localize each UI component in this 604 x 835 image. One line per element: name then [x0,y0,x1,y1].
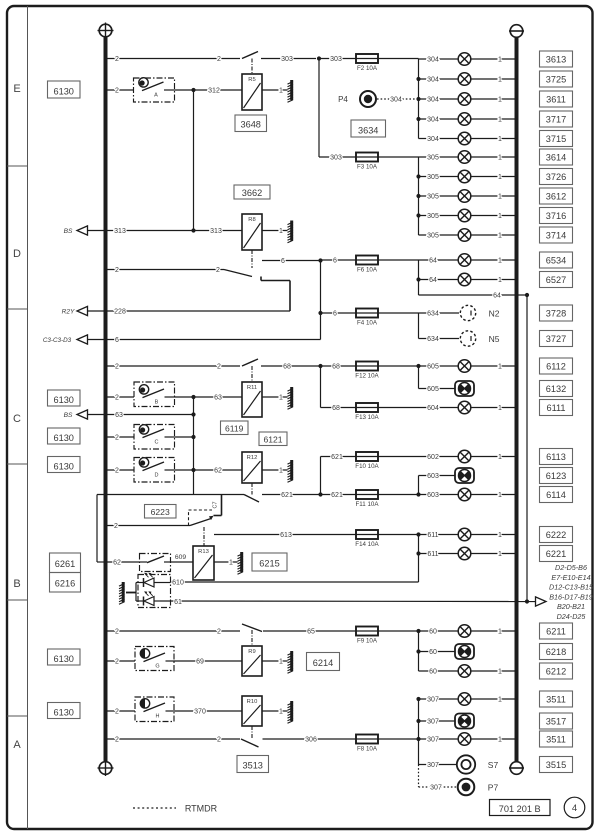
arrow BS left [77,226,88,235]
switch D [134,458,175,483]
component box 3613 [540,51,573,67]
component box 3728 [540,305,573,321]
svg-text:3728: 3728 [546,308,566,318]
svg-text:1: 1 [498,117,502,124]
svg-text:6119: 6119 [225,424,244,434]
component box 6211 [540,623,573,639]
svg-text:1: 1 [498,532,502,539]
wire 305-3 [419,195,515,197]
vertical link switch A output to 313 [193,90,195,231]
relay unit R11 [242,382,262,417]
svg-text:370: 370 [194,709,206,716]
arrow R2Y left [77,306,88,315]
svg-text:1: 1 [498,174,502,181]
wire 610 [171,581,419,583]
svg-text:2: 2 [115,267,119,274]
mechanical link R12-switch [251,483,253,495]
svg-text:1: 1 [498,669,502,676]
svg-text:F14 10A: F14 10A [355,541,379,548]
wire 68 to fuse F13 [321,407,357,409]
svg-text:64: 64 [429,277,437,284]
svg-text:1: 1 [279,395,283,402]
svg-text:S7: S7 [488,760,499,770]
vertical 63/62 link [193,397,195,495]
svg-text:6132: 6132 [546,384,566,394]
svg-text:H: H [156,714,160,720]
svg-text:F4 10A: F4 10A [357,320,378,327]
ground terminal top [509,25,524,38]
svg-text:1: 1 [498,277,502,284]
svg-text:F9 10A: F9 10A [357,638,378,645]
wire 64-2 [419,279,515,281]
connector N5 [460,331,475,346]
wire 64 link to zone B [419,294,528,296]
component box 6261 [50,553,81,573]
fuse F2 10A [356,54,378,72]
svg-text:603: 603 [427,492,439,499]
svg-text:3613: 3613 [546,54,566,64]
svg-text:1: 1 [279,228,283,235]
wire 634 N2 [419,312,460,314]
svg-text:621: 621 [331,454,343,461]
svg-text:1: 1 [229,560,233,567]
switch unit A box 6130 [48,81,81,98]
svg-text:6130: 6130 [53,654,73,664]
component box 3611 [540,91,573,107]
ground M-R8 [288,221,294,243]
switch unit B box 6130 [48,390,81,406]
wire 228 [88,310,291,312]
svg-text:2: 2 [115,435,119,442]
svg-text:C: C [13,413,21,425]
contact wire 6 [262,260,321,262]
svg-text:3716: 3716 [546,211,566,221]
svg-text:621: 621 [281,492,293,499]
wire 611-2 [419,553,515,555]
svg-text:1: 1 [498,233,502,240]
lamp 305-2 [458,170,471,183]
node 6 [318,258,322,262]
svg-text:6: 6 [281,258,285,265]
svg-text:R11: R11 [247,385,257,391]
vertical 68 [320,366,322,408]
lamp 305-5 [458,229,471,242]
svg-text:N5: N5 [489,334,500,344]
component box 6114 [540,487,573,503]
svg-text:P7: P7 [488,783,499,793]
svg-text:2: 2 [115,659,119,666]
mechanical link R5-switch [251,59,253,75]
lamp 64-2 [458,273,471,286]
svg-text:621: 621 [331,492,343,499]
svg-text:6111: 6111 [546,403,565,413]
svg-text:2: 2 [216,267,220,274]
wire 609 to relay R13 [171,561,194,563]
wire 613 [214,534,356,536]
wire 2 to switch A [106,89,134,91]
svg-text:4: 4 [572,803,577,814]
component box 6215 [252,553,287,571]
wire 305-4 [419,215,515,217]
svg-text:3717: 3717 [546,114,566,124]
sheet number circle 4 [564,797,585,818]
component box 3715 [540,131,573,147]
lamp 602 [458,450,471,463]
svg-text:F8 10A: F8 10A [357,746,378,753]
component box 6218 [540,644,573,660]
lamp 307-3 [458,733,471,746]
branch vertical 304 [418,59,420,139]
wire 61 [160,600,536,603]
svg-text:R9: R9 [248,649,255,655]
wire 304-5 [419,138,515,140]
lamp 305-3 [458,190,471,203]
lamp 604 [458,401,471,414]
svg-text:305: 305 [427,194,439,201]
wire 621 feed row [97,494,244,496]
component box 3511-a [540,691,573,707]
svg-text:1: 1 [498,405,502,412]
dotted vertical 307 [418,765,420,788]
component box 6212 [540,663,573,679]
svg-text:6534: 6534 [546,255,566,265]
wire 307 dotted to P7 [419,786,457,788]
wire 307 to S7 [419,764,457,766]
wire 2 row A bottom [106,738,241,740]
svg-text:313: 313 [114,228,126,235]
battery + terminal top [98,23,114,39]
lamp 603-2 [458,488,471,501]
svg-text:2: 2 [115,629,119,636]
wire 306 to fuse F8 [263,738,357,740]
switch unit D box 6130 [48,457,81,473]
wire 2 to switch D [106,469,135,471]
svg-text:F12 10A: F12 10A [355,373,379,380]
fuse F9 10A [356,627,378,645]
svg-text:6130: 6130 [53,708,73,718]
lamp 304-4 [458,113,471,126]
svg-text:64: 64 [429,258,437,265]
ground M-R9 [288,651,294,673]
component box 6123 [540,468,573,484]
branch vertical 305 [418,157,420,235]
lamp 64-1 [458,254,471,267]
lamp 605-1 [458,360,471,373]
svg-text:62: 62 [214,468,222,475]
wire 1 R8 to ground [262,230,288,232]
svg-text:6: 6 [333,311,337,318]
legend RTMDR dotted line [133,807,176,809]
svg-text:6130: 6130 [53,395,73,405]
svg-text:3614: 3614 [546,152,566,162]
svg-text:E: E [13,83,20,95]
wire 2 to lower lever [106,525,191,527]
warning lamp 60-2 [455,644,474,659]
svg-text:2: 2 [115,56,119,63]
svg-text:1: 1 [279,88,283,95]
component box 3727 [540,331,573,347]
svg-text:69: 69 [196,659,204,666]
switch unit G box 6130 [48,649,81,665]
svg-text:F10 10A: F10 10A [355,463,379,470]
svg-text:B: B [13,578,20,590]
fuse F11 10A [356,490,380,508]
svg-text:F3 10A: F3 10A [357,164,378,171]
wire 1 R11 to ground [262,396,288,398]
lower lever 6223 [190,519,211,526]
svg-text:3511: 3511 [546,694,566,704]
svg-text:304: 304 [427,57,439,64]
component box 3511-b [540,731,573,747]
relay unit R13 [193,546,214,580]
relay unit R5 [242,74,262,110]
mechanical linkage dashes 6223 [188,510,190,526]
svg-text:3513: 3513 [242,761,262,771]
node 68 [318,364,322,368]
svg-text:1: 1 [498,57,502,64]
svg-text:304: 304 [427,117,439,124]
switch C [134,425,175,450]
svg-text:611: 611 [427,532,438,539]
svg-text:305: 305 [427,174,439,181]
branch vertical 605 [418,366,420,389]
svg-text:312: 312 [208,88,220,95]
switch box 62/609 [140,554,171,572]
switch H [135,697,174,722]
svg-text:307: 307 [427,737,439,744]
svg-text:E7-E10-E14: E7-E10-E14 [551,573,590,582]
vertical wire 64-61 right side [526,295,528,602]
svg-text:1: 1 [498,97,502,104]
photodiode junction vertical [135,583,137,602]
svg-text:R5: R5 [248,77,255,83]
svg-text:6527: 6527 [546,275,566,285]
step contact 6223 [214,495,222,516]
svg-text:634: 634 [427,311,439,318]
svg-text:3725: 3725 [546,74,566,84]
wire 621 to node [262,494,321,496]
arrow 61 right [536,597,547,606]
lamp 611-2 [458,547,471,560]
svg-text:304: 304 [427,97,439,104]
svg-text:1: 1 [498,77,502,84]
svg-text:611: 611 [427,551,438,558]
relay unit R9 [242,646,262,676]
warning lamp 307-2 [455,714,474,729]
svg-text:304: 304 [427,136,439,143]
svg-text:1: 1 [498,213,502,220]
svg-text:C: C [155,440,159,446]
warning lamp 603-1 [455,468,474,483]
svg-text:2: 2 [115,88,119,95]
wire 307-2 [419,720,456,722]
component box 6113 [540,449,573,465]
lamp 304-1 [458,53,471,66]
svg-text:303: 303 [281,56,293,63]
svg-text:6223: 6223 [151,507,170,517]
svg-text:R2Y: R2Y [62,309,75,316]
svg-text:BS: BS [64,228,73,235]
svg-text:B20-B21: B20-B21 [557,602,585,611]
wire 68 to fuse F12 [321,365,357,367]
component box 3725 [540,71,573,87]
component box 6222 [540,527,573,543]
wire 304-2 [419,78,515,80]
svg-text:1: 1 [498,258,502,265]
component box 6223 [145,505,177,519]
svg-text:603: 603 [427,473,439,480]
changeover switch D [224,270,290,312]
svg-text:6211: 6211 [546,626,566,636]
mechanical link R10-switch [251,726,253,738]
title box 701 201 B [490,800,551,816]
wire 69 switch G to relay R9 [174,660,242,662]
relay unit R12 [242,452,262,483]
svg-text:6221: 6221 [546,549,566,559]
component box 6132 [540,381,573,397]
svg-text:609: 609 [175,554,187,561]
wire 65 to fuse F9 [263,630,356,632]
wire switch C output [175,436,194,438]
svg-text:307: 307 [427,697,439,704]
fuse F8 10A [356,735,378,753]
switch B (lighting switch) [134,382,175,407]
svg-text:304: 304 [427,77,439,84]
svg-text:1: 1 [498,364,502,371]
svg-text:6130: 6130 [53,87,73,97]
fuse F3 10A [356,153,378,171]
svg-text:605: 605 [427,386,439,393]
wire 313 [88,230,243,232]
photodiode 2 [136,591,160,605]
destination text block [549,563,594,621]
component box 3717 [540,111,573,127]
positive supply bus (left) [104,38,108,762]
svg-text:3727: 3727 [546,334,566,344]
fuse F13 10A [355,403,379,421]
fuse F14 10A [355,530,379,548]
svg-text:2: 2 [217,737,221,744]
component box 3515 [540,757,573,773]
wire 6 to arrow [88,339,321,341]
svg-text:65: 65 [307,629,315,636]
wire 603-2 [419,494,515,496]
component box 6534 [540,252,573,268]
component box 6527 [540,272,573,288]
svg-text:613: 613 [280,532,292,539]
switch S7 [457,755,475,773]
wire 63 to BS arrow [88,414,194,416]
wire 304-1 [419,58,515,60]
svg-text:304: 304 [390,97,402,104]
svg-text:306: 306 [305,737,317,744]
svg-text:1: 1 [498,737,502,744]
photodiode unit box [138,575,171,608]
svg-text:6212: 6212 [546,666,566,676]
branch vertical 64 [418,260,420,295]
svg-text:62: 62 [113,560,121,567]
component box 3714 [540,227,573,243]
component box 6111 [540,400,573,416]
svg-text:604: 604 [427,405,439,412]
branch vertical 603 [418,476,420,495]
svg-text:1: 1 [498,194,502,201]
ground M-R11 [288,387,294,409]
svg-text:64: 64 [493,293,501,300]
svg-text:1: 1 [498,155,502,162]
component box 3614 [540,149,573,165]
wire 2 to switch C [106,436,135,438]
component box 6214 [307,653,340,671]
svg-text:6130: 6130 [53,462,73,472]
vertical 6 bus [320,261,322,340]
wire 60-2 [419,651,456,653]
svg-text:1: 1 [498,551,502,558]
wire 307-1 [419,698,515,700]
lamp 304-2 [458,73,471,86]
mechanical link R8-switch [251,250,253,268]
zone column line [27,6,29,829]
wire 621 to fuse F10 [321,456,357,458]
wire feed row E1 (2/303) [106,58,241,60]
wire 307-3 [419,738,515,740]
photodiode 1 [136,573,160,587]
svg-text:2: 2 [115,468,119,475]
svg-text:A: A [13,739,21,751]
svg-text:307: 307 [427,719,439,726]
svg-text:R13: R13 [198,549,209,555]
wire 305-5 [419,234,515,236]
svg-text:F13 10A: F13 10A [355,414,379,421]
branch vertical 634 [418,313,420,339]
svg-text:D: D [13,248,21,260]
component box 3612 [540,188,573,204]
mechanical link switch-R9 [251,630,253,646]
svg-text:R8: R8 [248,217,255,223]
svg-text:BS: BS [64,412,73,419]
svg-text:2: 2 [114,523,118,530]
fuse F6 10A [356,256,378,274]
svg-text:6121: 6121 [263,435,282,445]
svg-text:3662: 3662 [242,188,262,198]
fuse F4 10A [356,309,378,327]
svg-text:R10: R10 [247,699,258,705]
svg-text:1: 1 [279,709,283,716]
svg-text:6: 6 [115,337,119,344]
wire 605-1 [419,365,515,367]
lamp 305-1 [458,151,471,164]
wire 621 to fuse F11 [321,494,357,496]
svg-text:63: 63 [214,395,222,402]
wire 2 row D [106,269,225,271]
svg-text:3714: 3714 [546,230,566,240]
svg-text:3517: 3517 [546,716,566,726]
wire 610 from diode [160,582,171,584]
node 621 [318,492,322,496]
node 303 [317,56,321,60]
arrow C3-C3-D3 left [77,335,88,344]
svg-text:307: 307 [430,785,442,792]
ground M-R10 [288,701,294,723]
component box 3513 [237,756,269,773]
wire 303 vertical to F3 [318,59,320,158]
ground M-R12 [288,460,294,482]
vertical 62 left feeder [96,495,98,563]
svg-text:G: G [155,664,159,670]
switch unit H box 6130 [48,703,81,719]
svg-text:68: 68 [332,405,340,412]
svg-text:6261: 6261 [55,559,75,569]
